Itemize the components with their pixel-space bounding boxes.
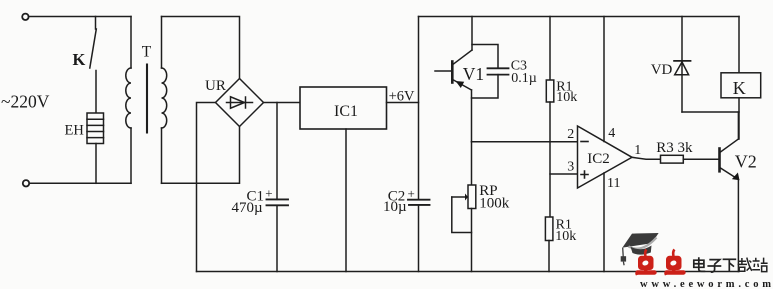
relay K xyxy=(721,73,761,98)
watermark chongchong glyph 1 xyxy=(636,250,655,275)
wire VD to relay branch xyxy=(682,111,739,113)
terminal bottom-left xyxy=(23,180,29,186)
heater EH xyxy=(87,113,104,144)
op-amp minus sign xyxy=(581,141,588,143)
wire IC2 output xyxy=(632,157,661,159)
svg-text:2: 2 xyxy=(567,127,574,142)
watermark text zi xyxy=(707,260,721,273)
wire bridge plus to IC1 xyxy=(264,102,301,104)
watermark tassel xyxy=(621,248,626,266)
wire R3 to V2 base xyxy=(683,158,718,160)
wire top primary xyxy=(29,16,132,18)
svg-text:R3 3k: R3 3k xyxy=(656,140,693,156)
transformer T secondary winding xyxy=(162,17,167,184)
svg-text:IC1: IC1 xyxy=(334,103,358,120)
svg-text:0.1µ: 0.1µ xyxy=(511,71,537,86)
svg-text:K: K xyxy=(733,78,746,98)
terminal top-left xyxy=(22,14,28,20)
transistor V1 xyxy=(435,17,472,142)
op-amp plus sign xyxy=(581,171,588,178)
wire IC1 ground pin xyxy=(345,129,347,272)
svg-text:~220V: ~220V xyxy=(1,92,50,112)
svg-text:1: 1 xyxy=(634,143,641,158)
wire bottom primary xyxy=(30,182,132,184)
svg-text:+: + xyxy=(265,186,272,201)
op-amp IC2 xyxy=(578,126,633,188)
wire relay drop xyxy=(738,17,740,73)
wire bridge minus down xyxy=(197,103,216,272)
transistor V2 xyxy=(720,112,740,272)
svg-text:V1: V1 xyxy=(463,64,484,84)
svg-text:IC2: IC2 xyxy=(587,151,610,167)
svg-text:100k: 100k xyxy=(479,195,510,211)
svg-text:10µ: 10µ xyxy=(383,199,407,215)
watermark text zhan xyxy=(752,258,767,272)
bridge rectifier UR xyxy=(216,79,264,127)
svg-text:11: 11 xyxy=(607,176,620,191)
resistor R1 lower xyxy=(545,217,553,272)
transformer core xyxy=(146,65,148,133)
wire pin4 xyxy=(603,17,605,142)
wire emitter down to RP xyxy=(471,142,473,185)
resistor R1 upper xyxy=(546,17,554,218)
ground rail xyxy=(197,271,740,273)
watermark text zai xyxy=(738,258,752,272)
wire pin11 xyxy=(603,173,605,272)
wire pin3 xyxy=(550,173,578,175)
svg-text:4: 4 xyxy=(608,126,615,141)
svg-text:www.eeworm.com: www.eeworm.com xyxy=(640,279,773,289)
regulator IC1 xyxy=(300,87,387,129)
svg-text:470µ: 470µ xyxy=(232,200,264,216)
watermark text xia xyxy=(723,259,737,272)
svg-text:3: 3 xyxy=(567,160,574,175)
switch K blade xyxy=(90,29,97,68)
potentiometer RP xyxy=(452,185,476,272)
capacitor C2 xyxy=(408,200,430,272)
transformer T primary winding xyxy=(126,17,131,184)
diode VD xyxy=(674,17,690,113)
svg-text:V2: V2 xyxy=(735,151,757,171)
watermark chongchong glyph 2 xyxy=(665,250,684,275)
capacitor C1 xyxy=(267,103,289,272)
svg-text:K: K xyxy=(73,50,86,69)
wire switch to EH xyxy=(95,71,97,114)
svg-text:+6V: +6V xyxy=(389,89,415,105)
wire secondary bottom to bridge xyxy=(162,127,240,184)
wire IC1 output xyxy=(387,102,419,104)
wire relay to V2 collector xyxy=(738,98,740,139)
watermark cap xyxy=(622,233,658,255)
svg-text:T: T xyxy=(142,43,152,60)
wire secondary top to bridge xyxy=(162,17,240,79)
svg-text:10k: 10k xyxy=(556,90,577,105)
capacitor C3 xyxy=(472,45,509,99)
wire V1 emitter to pin2 xyxy=(472,141,578,143)
wire switch drop xyxy=(95,17,97,30)
resistor R3 xyxy=(661,155,684,163)
watermark text dian xyxy=(694,257,706,271)
svg-text:10k: 10k xyxy=(555,229,576,244)
svg-text:+: + xyxy=(408,186,415,201)
svg-text:VD: VD xyxy=(651,62,673,78)
wire +6V riser xyxy=(418,17,420,200)
svg-text:UR: UR xyxy=(205,78,226,94)
wire EH to bottom xyxy=(95,144,97,184)
svg-text:EH: EH xyxy=(65,123,85,139)
top supply rail xyxy=(419,16,740,18)
